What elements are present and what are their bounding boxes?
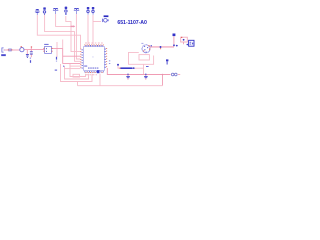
svg-text:651-1107-A0: 651-1107-A0 [117,20,147,26]
